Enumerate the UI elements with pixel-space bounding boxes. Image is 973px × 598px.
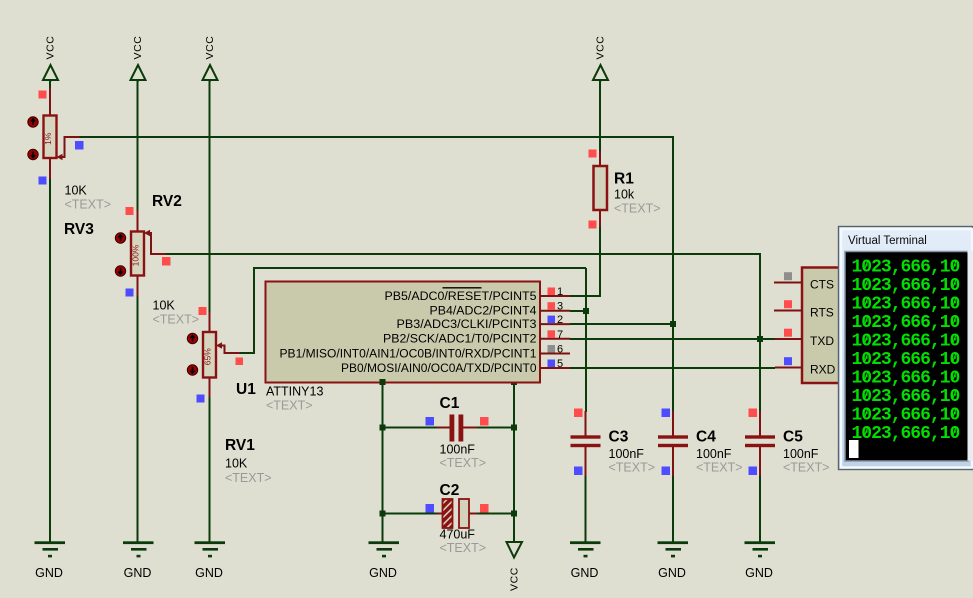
wire C2 right pin: [469, 513, 477, 515]
wire R1 bottom pin: [599, 210, 601, 227]
svg-text:65%: 65%: [203, 348, 213, 365]
wire U1 bottom left to GND: [382, 382, 384, 542]
wire U1 bottom right to VCC: [513, 382, 515, 542]
svg-text:U1: U1: [236, 381, 256, 398]
potentiometer RV2 body: [131, 232, 145, 276]
svg-text:10k: 10k: [614, 188, 635, 202]
junction at 382.5,427.5: [380, 425, 386, 431]
svg-text:<TEXT>: <TEXT>: [440, 456, 487, 470]
U1 pin 7 stub: [540, 338, 570, 340]
U1 pin 3 square: [548, 302, 556, 310]
potentiometer RV2 adjust knobs: [115, 233, 125, 276]
capacitor C3: [571, 409, 601, 477]
wire RV1 column bottom (RV1 to GND): [209, 397, 211, 542]
svg-text:<TEXT>: <TEXT>: [609, 461, 656, 475]
svg-text:1: 1: [557, 286, 563, 298]
popup terminal screen: [845, 252, 968, 462]
terminal output text lines: [852, 258, 960, 445]
ground: [658, 541, 689, 580]
pin square RV3 top: [39, 91, 47, 99]
svg-text:470uF: 470uF: [440, 528, 476, 542]
svg-text:RV2: RV2: [152, 193, 182, 210]
svg-text:RV3: RV3: [64, 221, 94, 238]
svg-text:<TEXT>: <TEXT>: [225, 471, 272, 485]
svg-text:C2: C2: [440, 482, 460, 499]
svg-text:3: 3: [557, 301, 563, 313]
U1 pin 7 square: [548, 330, 556, 338]
terminal pin TXD stub: [775, 338, 802, 340]
wire pin 5 net to RXD: [570, 367, 775, 369]
svg-text:VCC: VCC: [132, 36, 144, 60]
wire pin 3 net: [570, 310, 586, 312]
svg-text:TXD: TXD: [810, 334, 834, 348]
ground: [123, 541, 154, 580]
wire RV3 bottom pin: [49, 158, 51, 179]
junction at 673,324: [670, 321, 676, 327]
svg-text:C5: C5: [783, 429, 803, 446]
potentiometer RV3 body: [43, 116, 57, 159]
power VCC symbol (bottom, pointing down): [507, 542, 523, 591]
wire C5 to GND: [759, 476, 761, 542]
svg-text:1%: 1%: [43, 132, 53, 145]
pin square R1 bottom: [589, 221, 597, 229]
wire C2 left pin: [437, 513, 443, 515]
popup terminal right strip: [968, 251, 973, 461]
wire C1 row left: [383, 427, 438, 429]
svg-text:<TEXT>: <TEXT>: [440, 541, 487, 555]
svg-text:GND: GND: [658, 566, 686, 580]
svg-text:100nF: 100nF: [440, 443, 476, 457]
pin square RV1 top: [199, 307, 207, 315]
svg-text:10K: 10K: [153, 299, 176, 313]
svg-text:PB4/ADC2/PCINT4: PB4/ADC2/PCINT4: [430, 306, 538, 318]
junction at 514,513.5: [511, 511, 517, 517]
op-amp U1 ATTINY13 body: [266, 282, 541, 383]
terminal pin CTS square: [784, 272, 792, 280]
terminal pin CTS stub: [774, 282, 802, 284]
svg-text:VCC: VCC: [204, 36, 216, 60]
svg-text:C4: C4: [696, 429, 716, 446]
wire net ADC3 vertical (RV3 wiper to C4): [672, 136, 674, 412]
svg-text:100nF: 100nF: [783, 447, 819, 461]
svg-text:<TEXT>: <TEXT>: [266, 399, 313, 413]
wire RV2 bottom pin: [137, 276, 139, 297]
pin square R1 top: [589, 150, 597, 158]
svg-text:ATTINY13: ATTINY13: [266, 385, 323, 399]
pin square RV2 bottom: [126, 289, 134, 297]
wire C2 row right: [477, 513, 514, 515]
junction at 382.5,382: [380, 379, 386, 385]
U1 pin 6 stub: [540, 353, 570, 355]
capacitor C2 (electrolytic): [443, 499, 470, 528]
U1 RESET overline: [443, 287, 482, 289]
junction at 586,311: [583, 308, 589, 314]
wire C1 right pin: [463, 427, 477, 429]
ground: [570, 541, 601, 580]
svg-text:100nF: 100nF: [696, 447, 732, 461]
svg-text:RXD: RXD: [810, 362, 836, 376]
svg-text:PB0/MOSI/AIN0/OC0A/TXD/PCINT0: PB0/MOSI/AIN0/OC0A/TXD/PCINT0: [341, 363, 537, 375]
wire RV2 column bottom (RV2 to GND): [137, 297, 139, 543]
pin square RV3 wiper: [75, 141, 84, 150]
svg-text:5: 5: [557, 358, 563, 370]
pin square C2 left: [426, 504, 435, 513]
wire pin 2 net: [570, 323, 673, 325]
terminal pin RTS square: [784, 300, 792, 308]
svg-text:Virtual Terminal: Virtual Terminal: [848, 235, 927, 247]
svg-text:R1: R1: [614, 171, 634, 188]
slashed zeros on terminal text: [864, 260, 956, 437]
svg-text:GND: GND: [745, 566, 773, 580]
svg-text:VCC: VCC: [595, 36, 607, 60]
U1 pin 5 square: [548, 360, 556, 368]
U1 bottom-left connection dot: [380, 379, 386, 385]
pin square C1 right: [480, 417, 489, 426]
wire RV3 column top (VCC to RV3): [49, 80, 51, 88]
svg-text:PB5/ADC0/RESET/PCINT5: PB5/ADC0/RESET/PCINT5: [385, 291, 537, 303]
U1 pin 3 stub: [540, 310, 570, 312]
pin square RV2 top: [126, 207, 134, 215]
pin square C2 right: [480, 504, 489, 513]
svg-text:GND: GND: [35, 566, 63, 580]
svg-text:CTS: CTS: [810, 277, 834, 291]
wire RV1 top pin: [209, 313, 211, 333]
wire net TXD vertical (RV2 wiper to C5): [759, 253, 761, 412]
svg-text:100nF: 100nF: [609, 447, 645, 461]
svg-text:PB3/ADC3/CLKI/PCINT3: PB3/ADC3/CLKI/PCINT3: [397, 319, 537, 331]
svg-text:100%: 100%: [131, 244, 141, 266]
pin square RV1 wiper: [236, 358, 244, 366]
virtual terminal popup window frame: [839, 227, 973, 470]
svg-text:<TEXT>: <TEXT>: [153, 313, 200, 327]
ground: [195, 541, 226, 580]
wire RV2 top pin: [137, 210, 139, 232]
resistor R1 body: [594, 166, 608, 210]
terminal pin RTS stub: [774, 310, 802, 312]
svg-text:<TEXT>: <TEXT>: [696, 461, 743, 475]
svg-text:10K: 10K: [65, 184, 88, 198]
junction at 514,382: [511, 379, 517, 385]
wire VCC to R1: [599, 80, 601, 151]
pin square RV3 bottom: [39, 177, 47, 185]
potentiometer RV2 wiper: [144, 230, 166, 254]
terminal pin RXD stub: [775, 367, 802, 369]
terminal cursor: [849, 440, 859, 458]
ground: [369, 541, 400, 580]
svg-text:GND: GND: [571, 566, 599, 580]
junction at 382.5,513.5: [380, 511, 386, 517]
wire pin 1 net: [570, 295, 601, 297]
svg-text:VCC: VCC: [45, 36, 57, 60]
svg-text:7: 7: [557, 329, 563, 341]
svg-text:RV1: RV1: [225, 437, 255, 454]
wire RV1 column top (VCC to RV1): [209, 80, 211, 313]
potentiometer RV3 adjust knobs: [28, 117, 38, 160]
pin square RV2 wiper: [162, 257, 171, 266]
U1 pin 5 stub: [540, 367, 570, 369]
junction at 514,427.5: [511, 425, 517, 431]
svg-text:<TEXT>: <TEXT>: [783, 461, 830, 475]
power VCC symbol #1: [43, 36, 58, 82]
capacitor C5: [745, 409, 775, 477]
svg-text:6: 6: [557, 344, 563, 356]
svg-text:PB2/SCK/ADC1/T0/PCINT2: PB2/SCK/ADC1/T0/PCINT2: [383, 334, 537, 346]
wire RV1 wiper to vertical: [240, 352, 255, 354]
wire RESET net upper run: [254, 267, 586, 269]
svg-text:C3: C3: [609, 429, 629, 446]
wire RV3 wiper net: [80, 136, 674, 138]
capacitor C1: [450, 415, 464, 442]
wire RV3 top pin: [49, 88, 51, 117]
wire R1 to pin 1 (RESET): [599, 227, 601, 297]
wire RV2 wiper net: [166, 253, 761, 255]
power VCC symbol #3: [203, 36, 218, 82]
wire C1 left pin: [437, 427, 450, 429]
U1 pin 2 square: [548, 316, 556, 324]
svg-text:C1: C1: [440, 395, 460, 412]
wire R1 top pin: [599, 151, 601, 166]
capacitor C4: [658, 409, 688, 477]
wire C2 row left: [383, 513, 438, 515]
U1 pin 2 stub: [540, 323, 570, 325]
potentiometer RV1 adjust knobs: [187, 333, 197, 375]
wire net RESET vertical to C3: [585, 268, 587, 412]
wire RV2 column top (VCC to RV2): [137, 80, 139, 210]
svg-text:GND: GND: [124, 566, 152, 580]
svg-text:10K: 10K: [225, 457, 248, 471]
wire RV1 bottom pin: [209, 378, 211, 398]
svg-text:PB1/MISO/INT0/AIN1/OC0B/INT0/R: PB1/MISO/INT0/AIN1/OC0B/INT0/RXD/PCINT1: [280, 348, 537, 360]
ground: [35, 541, 66, 580]
pin square RV1 bottom: [197, 395, 205, 403]
terminal pin TXD square: [784, 329, 792, 337]
svg-text:<TEXT>: <TEXT>: [614, 202, 661, 216]
power VCC symbol #2: [131, 36, 146, 82]
svg-text:<TEXT>: <TEXT>: [65, 198, 112, 212]
wire pin 7 net to TXD: [570, 338, 775, 340]
wire C4 to GND: [672, 476, 674, 542]
terminal pin RXD square: [784, 357, 792, 365]
U1 pin 6 square: [548, 345, 556, 353]
svg-text:GND: GND: [369, 566, 397, 580]
U1 pin 1 square: [548, 288, 556, 296]
svg-text:RTS: RTS: [810, 305, 834, 319]
junction at 760,339: [757, 336, 763, 342]
ground: [745, 541, 776, 580]
wire C1 row right: [477, 427, 514, 429]
pin square C1 left: [426, 417, 435, 426]
U1 pin 1 stub: [540, 295, 570, 297]
wire RV1 wiper vertical: [253, 267, 255, 354]
svg-text:2: 2: [557, 314, 563, 326]
potentiometer RV3 wiper: [57, 137, 80, 160]
svg-text:VCC: VCC: [509, 567, 521, 591]
potentiometer RV1 body: [203, 332, 217, 378]
wire RV3 column bottom (RV3 to GND): [49, 179, 51, 542]
wire C3 to GND: [585, 476, 587, 542]
power VCC symbol #4: [593, 36, 608, 82]
potentiometer RV1 wiper: [216, 342, 240, 353]
svg-text:GND: GND: [195, 566, 223, 580]
virtual terminal instrument body: [802, 268, 850, 384]
